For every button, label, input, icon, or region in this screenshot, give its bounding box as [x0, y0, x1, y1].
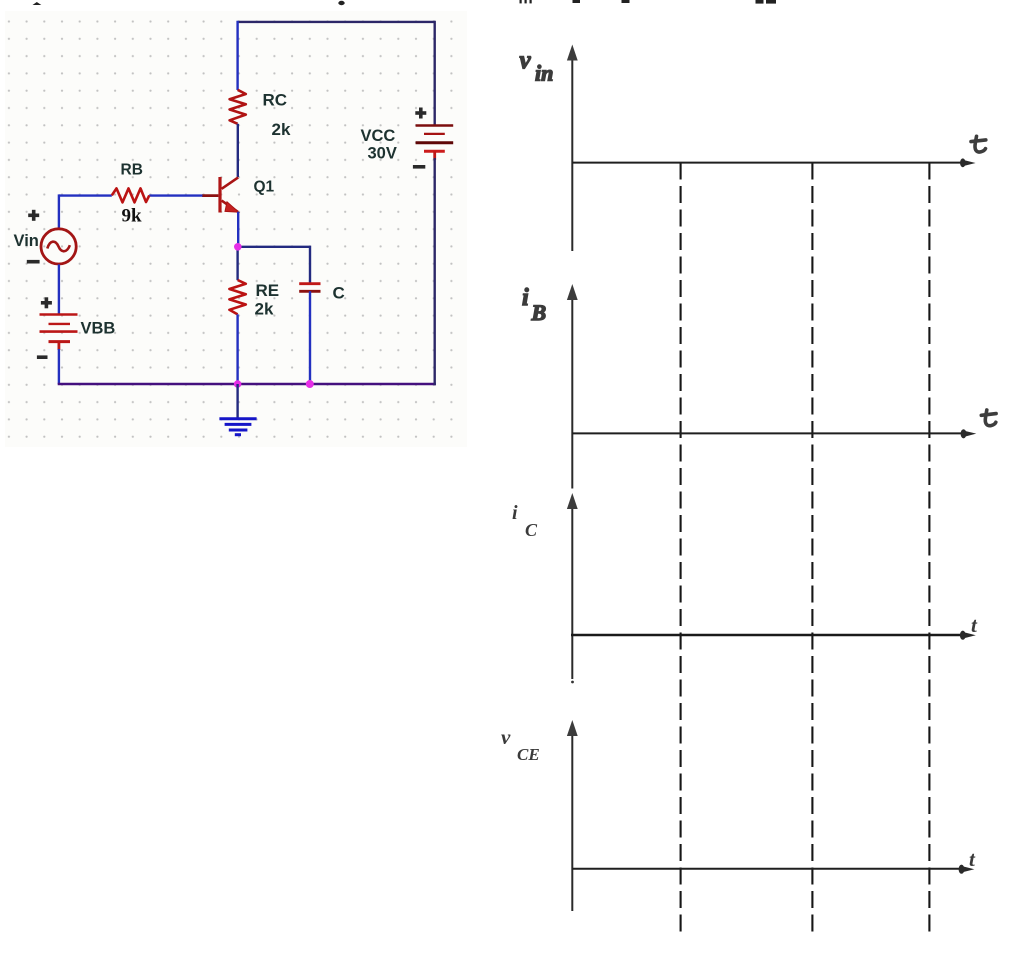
- wire: RE bottom to bottom rail: [236, 314, 238, 384]
- svg-text:in: in: [535, 61, 553, 86]
- label v_in: [520, 47, 554, 86]
- label Q1: [254, 179, 275, 196]
- svg-text:RE: RE: [256, 281, 280, 300]
- wire: junction to RE top: [236, 247, 238, 280]
- wire: VCC right rail top segment: [434, 21, 436, 126]
- battery VBB: [40, 315, 78, 351]
- dashed timing line 3: [928, 163, 930, 936]
- wire: top rail from collector branch to VCC: [238, 21, 435, 23]
- svg-text:C: C: [333, 284, 345, 303]
- wire: emitter to junction node: [237, 212, 239, 247]
- label RB: [121, 162, 143, 179]
- svg-text:VBB: VBB: [81, 320, 116, 338]
- svg-text:i: i: [512, 502, 518, 524]
- wire: ground stem: [236, 384, 238, 418]
- svg-text:Vin: Vin: [14, 232, 39, 250]
- source Vin (sine): [41, 229, 76, 264]
- capacitor C: [299, 284, 320, 292]
- label v_CE: [501, 725, 540, 764]
- svg-text:RB: RB: [121, 162, 143, 179]
- dashed timing line 1: [680, 163, 682, 936]
- label t (graph 1): [971, 136, 986, 152]
- value 30V: [368, 144, 397, 162]
- schematic background grid: [5, 11, 467, 447]
- node: emitter junction: [234, 243, 242, 251]
- label Vin: [14, 232, 39, 250]
- svg-text:RC: RC: [263, 91, 288, 110]
- wire: capacitor bottom to bottom rail: [309, 291, 311, 384]
- svg-text:v: v: [501, 725, 511, 749]
- label t (graph 4): [969, 847, 976, 871]
- resistor RE: [229, 280, 245, 314]
- label i_C: [512, 502, 538, 540]
- graph 2 axes (i_B vs t): [567, 284, 976, 489]
- graph 3 axes (i_C vs t): [567, 493, 976, 683]
- label VBB: [81, 320, 116, 338]
- svg-text:i: i: [522, 285, 529, 311]
- value 2k (RE): [255, 300, 274, 319]
- wire: base wire from Vin corner through RB to base: [59, 194, 203, 196]
- plus sign (Vin): [28, 210, 39, 221]
- svg-text:CE: CE: [517, 745, 540, 764]
- label i_B: [522, 285, 546, 325]
- battery VCC 30V: [416, 126, 454, 161]
- minus sign (VCC): [413, 165, 425, 169]
- label RE: [256, 281, 280, 300]
- svg-text:Q1: Q1: [254, 179, 275, 196]
- svg-text:2k: 2k: [272, 120, 291, 139]
- wire: RC bottom to collector of Q1: [237, 124, 239, 177]
- value 9k (RB): [122, 206, 143, 227]
- value 2k (RC): [272, 120, 291, 139]
- wire: VBB to bottom-left corner: [58, 349, 60, 384]
- graph 4 axes (v_CE vs t): [567, 720, 974, 911]
- resistor RC: [230, 90, 246, 124]
- label C: [333, 284, 345, 303]
- wire: VCC right rail bottom segment: [434, 158, 436, 385]
- resistor RB: [112, 188, 150, 202]
- transistor Q1: [202, 177, 239, 213]
- svg-text:9k: 9k: [122, 206, 143, 227]
- plus sign (VCC): [415, 108, 426, 119]
- label t (graph 2): [981, 410, 996, 426]
- graph 1 axes (v_in vs t): [567, 45, 976, 252]
- dashed timing line 2: [811, 163, 813, 936]
- svg-text:30V: 30V: [368, 144, 397, 162]
- svg-text:B: B: [531, 300, 547, 325]
- minus sign (VBB): [37, 355, 48, 359]
- label VCC: [361, 127, 396, 145]
- svg-text:2k: 2k: [255, 300, 274, 319]
- wire: collector branch top (rail to RC): [236, 21, 238, 90]
- node: capacitor bottom junction: [306, 380, 314, 388]
- label t (graph 3): [971, 613, 978, 637]
- wire: emitter node branch to capacitor: [238, 247, 310, 284]
- node: ground junction: [234, 380, 242, 388]
- wire: bottom rail: [58, 383, 436, 386]
- plus sign (VBB): [41, 297, 52, 308]
- svg-text:C: C: [525, 520, 538, 540]
- cropped caption fragments (top edge): [33, 0, 777, 5]
- svg-text:v: v: [520, 47, 532, 74]
- svg-text:VCC: VCC: [361, 127, 396, 145]
- wire: left drop from corner to Vin source: [58, 194, 60, 228]
- wire: Vin source to VBB battery: [58, 264, 60, 314]
- label RC: [263, 91, 288, 110]
- minus sign (Vin): [27, 260, 40, 264]
- ground: [219, 419, 256, 435]
